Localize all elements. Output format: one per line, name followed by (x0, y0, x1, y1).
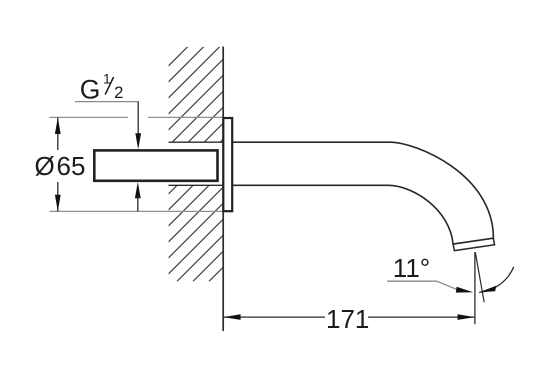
escutcheon flange (223, 118, 232, 211)
extension line top right part (148, 116, 223, 118)
G 1/2 leader vertical (137, 102, 139, 136)
11 deg right arrow (479, 286, 496, 292)
svg-text:Ø: Ø (35, 151, 55, 181)
svg-text:11°: 11° (393, 253, 430, 283)
11 deg left arrow (456, 287, 473, 293)
wall hatch (169, 11, 224, 338)
spout nozzle tip (453, 238, 495, 250)
171 arrow right (458, 314, 475, 320)
small arrow tail (137, 196, 139, 211)
G 1/2 leader underline (75, 101, 139, 103)
wall face line (222, 47, 224, 332)
171 arrow left (223, 314, 240, 320)
dimension line 171 right part (368, 316, 475, 318)
spout body (232, 142, 493, 244)
diameter arrow up (55, 118, 61, 134)
water stream direction line (475, 252, 484, 302)
svg-text:65: 65 (57, 151, 86, 181)
small arrow up at pipe bottom (135, 182, 141, 198)
extension line bottom (diameter 65) (50, 210, 224, 212)
G 1/2 arrow down (135, 133, 141, 149)
pipe (G 1/2 connection) (94, 150, 217, 180)
diameter dimension line upper (57, 117, 59, 150)
svg-text:G: G (80, 74, 101, 104)
diameter dimension line lower (57, 182, 59, 211)
11 deg leader (387, 281, 461, 290)
11 deg angle arc (479, 267, 514, 293)
fraction slash (105, 77, 113, 95)
svg-text:171: 171 (326, 304, 369, 334)
svg-text:2: 2 (114, 83, 123, 102)
wall hole bottom line (169, 184, 224, 186)
dimension line 171 left part (223, 316, 325, 318)
wall hole top line (169, 141, 224, 143)
diameter arrow down (55, 195, 61, 211)
outlet extension line vertical (474, 252, 476, 324)
extension line top (diameter 65) (50, 116, 129, 118)
